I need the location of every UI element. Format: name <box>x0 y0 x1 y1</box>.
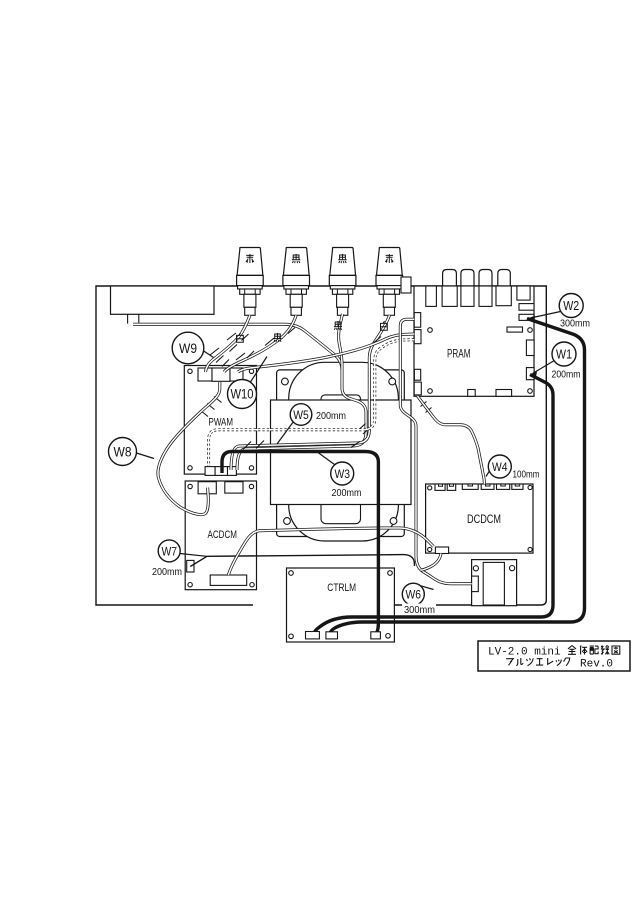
wire W5 dashed <box>209 340 415 466</box>
svg-text:LV-2.0 mini: LV-2.0 mini <box>488 647 561 659</box>
RCA jack 1 <box>443 270 457 287</box>
binding post 4 (red) <box>376 248 403 316</box>
binding post 2 (black) <box>283 248 310 316</box>
wire speaker post3 black <box>237 314 366 470</box>
label W2 <box>528 294 590 330</box>
wire W10 signal bundle <box>238 334 414 372</box>
svg-text:100mm: 100mm <box>513 470 540 481</box>
svg-text:200mm: 200mm <box>332 488 362 499</box>
label W10 <box>228 357 268 409</box>
title katakana ma <box>506 659 513 666</box>
label W7 <box>152 540 207 578</box>
wire DCDCM stub <box>421 554 442 571</box>
wire W9 speaker post1 white <box>206 315 250 372</box>
title katakana e <box>536 659 543 665</box>
wire speaker post4 white <box>231 315 390 470</box>
label W8 <box>109 438 155 466</box>
connector CTRLM J2 <box>326 632 338 639</box>
transformer T1 mounting holes <box>282 378 397 524</box>
wire ACDCM to DCDCM <box>228 528 433 575</box>
svg-text:Rev.0: Rev.0 <box>580 659 613 671</box>
label W6 <box>402 583 436 616</box>
svg-text:W2: W2 <box>563 299 579 313</box>
wire color label shiro (white) post4 <box>381 321 388 330</box>
svg-text:CTRLM: CTRLM <box>327 582 356 594</box>
title kanji hai <box>590 646 598 654</box>
wire W2 thick <box>330 319 585 634</box>
board ACDCM <box>185 481 256 590</box>
post cap label aka (red) post1 <box>246 254 254 263</box>
binding post 3 (black) <box>329 248 356 316</box>
svg-text:PRAM: PRAM <box>447 349 471 361</box>
title katakana small-tsu <box>556 660 561 666</box>
svg-text:DCDCM: DCDCM <box>467 514 501 526</box>
svg-text:W3: W3 <box>334 467 350 481</box>
label W4 <box>486 455 540 481</box>
wire W3 thick <box>222 452 378 634</box>
svg-text:W5: W5 <box>293 408 309 422</box>
wire color label kuro (black) post2 <box>274 333 282 342</box>
svg-text:200mm: 200mm <box>552 370 581 381</box>
wire W1 thick <box>314 375 553 634</box>
wire twist marks <box>201 328 432 450</box>
post cap label aka post4 <box>385 254 393 263</box>
title kanji zen <box>568 646 576 655</box>
label W1 <box>531 342 581 381</box>
svg-text:300mm: 300mm <box>560 318 590 329</box>
svg-text:W10: W10 <box>231 387 254 402</box>
title kanji sen <box>601 646 609 655</box>
wire AC inlet lead <box>133 324 342 388</box>
title katakana ru <box>516 658 523 666</box>
AC inlet module <box>111 286 215 324</box>
title katakana re <box>548 658 554 664</box>
board PWAM <box>184 366 256 476</box>
transformer T1 coil <box>289 362 399 541</box>
title katakana ku <box>564 658 570 666</box>
svg-text:W8: W8 <box>114 444 132 459</box>
title block <box>478 641 630 671</box>
connector CTRLM J3 <box>371 632 381 639</box>
RCA jack 3 <box>479 270 492 287</box>
title kanji zu <box>612 646 620 654</box>
chassis outline <box>96 286 546 605</box>
svg-text:W7: W7 <box>161 544 177 558</box>
wire W8 <box>158 382 220 515</box>
RCA jack 4 <box>498 270 511 287</box>
power switch board <box>472 560 517 606</box>
post cap label kuro post3 <box>338 254 346 263</box>
svg-text:PWAM: PWAM <box>209 416 234 428</box>
wire W9 speaker post2 black <box>224 315 296 372</box>
svg-text:300mm: 300mm <box>404 605 435 616</box>
connector CTRLM J1 <box>306 632 320 639</box>
post cap label kuro post2 <box>292 254 300 263</box>
svg-text:200mm: 200mm <box>152 567 182 578</box>
wire W7 <box>190 555 414 567</box>
label W3 <box>318 453 362 499</box>
label W5 <box>277 404 346 444</box>
title kanji tai <box>580 646 587 655</box>
title katakana tsu <box>527 658 534 665</box>
board CTRLM <box>287 568 395 642</box>
svg-text:W9: W9 <box>179 341 197 356</box>
binding post 1 (red) <box>237 248 264 316</box>
transformer T1 core band <box>271 400 412 505</box>
wire W4 <box>418 396 485 484</box>
label W9 <box>172 332 213 364</box>
svg-text:ACDCM: ACDCM <box>208 529 238 541</box>
svg-text:W1: W1 <box>556 348 572 362</box>
transformer T1 strap ends <box>321 395 361 524</box>
RCA jack 2 <box>461 270 474 287</box>
board PRAM <box>401 277 534 396</box>
board DCDCM <box>426 484 533 554</box>
svg-text:W6: W6 <box>406 588 422 602</box>
wire color label kuro (black) post3 <box>334 321 342 330</box>
wire W6 <box>400 319 471 584</box>
svg-text:W4: W4 <box>492 460 508 474</box>
transformer T1 bracket <box>277 370 405 537</box>
wire color label shiro (white) post1 <box>237 333 244 342</box>
svg-text:200mm: 200mm <box>316 411 346 422</box>
